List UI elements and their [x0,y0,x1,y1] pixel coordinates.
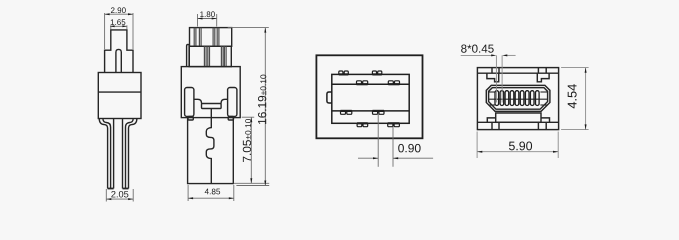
arrows 7.05 [250,117,252,122]
4.54 dims [561,67,589,69]
view1 body mid line [98,91,141,93]
arrows 4.54 [585,68,587,73]
view3 pad row2b [388,81,399,84]
view3 pad row2a [357,81,368,84]
view3 pad row3a [341,111,352,114]
view2 center tab [202,104,222,109]
8*0.45 ext lines [495,55,497,102]
view2 seam zigzag [206,109,214,184]
view2 cavity line with recessed shelf [194,99,228,103]
label 4.54 [568,84,577,108]
view1 center tab [116,49,121,72]
label 8*0.45 [461,45,494,53]
label 2.05 [111,191,128,198]
view4 contacts (9 slots) [495,91,539,106]
view1 main body [98,73,141,119]
view4 contact shelf lines [489,91,495,93]
view4 opening inner contour [489,88,548,110]
dim 1.65 line [110,25,127,27]
view4 dimensions [461,55,589,158]
label 4.85 [205,189,220,195]
view4 bottom-right notch [541,118,550,122]
view3 pad row1b [372,71,381,74]
view2 left slot [185,88,194,117]
view3 left tab [327,92,332,103]
label 0.90 [398,144,420,153]
arrows 1.80 [198,18,203,20]
view4 bottom strip line [477,121,558,123]
arrows 1.65 [110,25,114,27]
arrows 5.90 [477,151,482,153]
view1 left leg [99,119,107,189]
view1 dimensions [105,13,134,202]
view4 bottom-left notch [487,118,495,122]
dim 16.19 ext top [228,27,269,29]
view2 left slot foot [188,117,193,121]
label 5.90 [509,142,532,151]
view2 main body [181,67,240,118]
view3 inner line upper [332,83,409,85]
view3 pad row4a [357,123,368,126]
view3 pad row1a [339,71,349,74]
arrows 4.85 [188,197,193,199]
view2 top section [190,28,232,47]
view2 lower body [188,118,234,184]
view3 dimension 0.90 [358,113,433,167]
5.90 dims [476,132,478,159]
arrows 2.05 [106,198,111,200]
dim 7.05 ext top [242,116,255,118]
view4 top-left stair notch [487,73,499,82]
view4 top strip line [477,72,558,74]
view3 assembly body [332,74,409,123]
label 7.05±0.10 [243,119,251,162]
dim 2.90 extension+line [104,13,106,49]
dim 2.05 extension+line [105,189,107,202]
view4 outer rect [477,68,558,130]
label 1.65 [111,19,126,25]
view2 right slot foot [228,117,233,121]
view1 upper silhouette (1.65 stem + 2.90 step) [105,30,133,73]
label 2.90 [111,7,126,13]
view2 second section [189,46,231,66]
label 16.19±0.10 [258,75,266,124]
view2 right slot [228,88,237,117]
view2 dimensions [188,14,269,201]
dim 4.85 [187,185,189,201]
arrows 2.90 [105,13,110,15]
bottom ext lines [234,182,270,184]
view4 bottom center bar [496,113,541,122]
dim 1.80 [197,14,199,27]
view3 outer flange rect [316,55,422,138]
view4 strip ticks [491,68,493,74]
view3 inner line lower [332,110,409,112]
view3 pad row3b [373,111,385,114]
view4 top-right stair notch [537,73,549,82]
view1 right leg [129,119,137,189]
view3 pad row4b [388,123,400,126]
view4 opening outer contour [486,85,550,111]
label 1.80 [200,11,215,17]
arrows 8*0.45 [491,54,496,56]
view4 contact mid line [489,98,548,100]
arrows 16.19 [264,28,266,33]
